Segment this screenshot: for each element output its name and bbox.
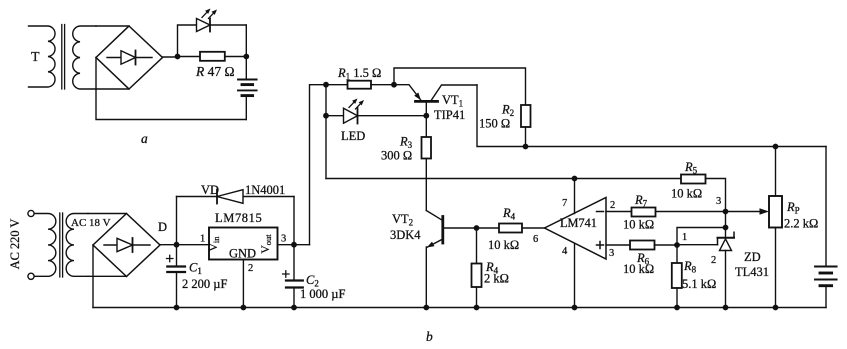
resistor R 47Ω (a) [178,52,247,61]
node dot pin7 [572,176,578,182]
wire node D up to VD [176,197,178,245]
wire pin7 up to supply rail [574,179,576,214]
node dot 3 (TL431 cathode node) [723,209,729,215]
node dot LED branch [323,113,329,119]
transistor VT2 3DK4 [426,211,476,308]
svg-text:2 200 µF: 2 200 µF [182,277,227,291]
wire LED right down to node [245,25,247,57]
wire secondary(b) top to bridge top [88,213,127,215]
svg-text:300 Ω: 300 Ω [381,149,412,163]
battery (a) [238,57,257,120]
transformer T primary winding [29,26,56,87]
transformer T core [62,25,65,90]
node dot R1 right [391,82,397,88]
wire bottom return (a) [96,58,246,120]
wire bridge(b) right vertex to node D [160,244,209,246]
AC input terminal (bottom) [28,273,34,279]
wire ref link to TL431 cathode line [677,228,726,246]
svg-text:7: 7 [562,198,567,209]
svg-text:LED: LED [341,129,365,143]
svg-text:2: 2 [711,255,716,266]
svg-text:4: 4 [562,246,568,257]
wire ref to zener bar hook [677,244,718,246]
wire down to LED(b) branch [325,85,327,116]
op-amp plus sign [597,242,604,249]
bridge rectifier (a) diamond [96,26,163,89]
node dot R2 bottom [523,144,529,150]
svg-text:R 47 Ω: R 47 Ω [195,64,235,79]
diode VD 1N4001 [177,190,295,204]
svg-text:AC 18 V: AC 18 V [71,217,111,229]
op-amp LM741 [545,198,607,260]
pin3 node dot [291,242,297,248]
svg-text:2: 2 [610,200,615,211]
bridge (b) internal diode [104,238,150,252]
battery (b) [815,147,837,308]
15V supply rail to R5 [326,178,681,180]
svg-text:1: 1 [200,234,205,245]
LED (a) arrows [202,9,217,19]
svg-text:VD: VD [201,183,219,197]
svg-text:LM7815: LM7815 [215,211,262,225]
resistor R6 10kΩ [606,241,677,250]
resistor R3 300Ω [422,116,432,211]
rail node dots [174,305,180,311]
svg-text:3DK4: 3DK4 [390,228,421,242]
wire secondary top to bridge top vertex [96,25,129,27]
resistor R5 10kΩ [681,175,726,212]
wire secondary bottom to bridge bottom vertex [96,88,129,90]
bridge rectifier (b) diamond [93,214,160,277]
svg-text:3: 3 [281,234,286,245]
svg-text:D: D [158,220,167,234]
resistor R2 150Ω [521,105,531,147]
wire LED branch down to op-amp supply rail [325,116,327,179]
transistor VT1 TIP41 [394,85,477,116]
svg-text:ZD: ZD [744,250,761,264]
svg-text:3: 3 [716,196,721,207]
svg-text:GND: GND [229,247,256,261]
svg-text:10 kΩ: 10 kΩ [488,238,519,252]
AC input terminal (top) [28,210,34,216]
svg-text:a: a [141,131,148,146]
resistor R8 5.1kΩ [672,245,682,308]
wire VD right down to pin3 node [293,197,295,245]
wire bridge(a) right vertex to node [163,56,178,58]
capacitor C1 [167,245,186,308]
node dot (R47 right) [243,54,249,60]
LED (a) [197,19,247,32]
svg-text:3: 3 [609,248,614,259]
wire pin4 down to rail [574,244,576,308]
node dot RP top [773,144,779,150]
resistor R7 10kΩ [606,208,726,217]
node dot VT2 base [474,225,480,231]
transformer (b) primary winding [35,214,56,277]
svg-text:6: 6 [533,234,538,245]
svg-text:5.1 kΩ: 5.1 kΩ [682,277,716,291]
svg-text:2 kΩ: 2 kΩ [484,272,509,286]
wire GND pin down to rail [242,260,244,308]
wiper arrow to RP [726,208,770,214]
svg-text:10 kΩ: 10 kΩ [671,187,702,201]
svg-text:1 000 µF: 1 000 µF [300,287,345,301]
regulator LM7815 box [209,228,278,260]
node D dot [174,242,180,248]
bottom rail (b) [93,307,826,309]
wire secondary(b) bottom to bridge bottom [88,275,127,277]
svg-text:1N4001: 1N4001 [245,183,285,197]
op-amp minus sign [597,211,604,213]
LED (b) [326,108,426,124]
bridge (a) internal diode [107,51,152,65]
svg-text:1: 1 [682,232,687,243]
svg-text:b: b [426,329,433,344]
shunt regulator ZD TL431 [718,212,735,308]
node dot R6/R8 junction [674,242,680,248]
svg-text:R1 1.5 Ω: R1 1.5 Ω [337,66,381,82]
svg-text:TIP41: TIP41 [434,108,465,122]
svg-text:10 kΩ: 10 kΩ [623,218,654,232]
svg-text:2: 2 [248,263,253,274]
node dot TL431 cathode tap [723,225,729,231]
transformer T secondary winding [73,26,96,89]
capacitor C2 [283,245,303,308]
svg-text:TL431: TL431 [735,265,769,279]
potentiometer RP 2.2kΩ [769,147,782,308]
node dot 15V corner [323,82,329,88]
node dot VT1 base [423,113,429,119]
svg-text:T: T [31,50,40,65]
svg-text:150 Ω: 150 Ω [479,117,510,131]
svg-text:AC 220 V: AC 220 V [8,219,22,270]
resistor R4 10kΩ [477,224,545,233]
svg-text:2.2 kΩ: 2.2 kΩ [784,217,818,231]
node dot (bridge a output +) [175,54,181,60]
LED (b) arrows [349,99,364,110]
svg-text:LM741: LM741 [560,216,597,230]
wire VT1 collector down to charge rail [477,85,826,147]
wire bridge(b) left vertex down to ground rail [92,245,94,308]
svg-text:10 kΩ: 10 kΩ [623,262,654,276]
resistor R1 1.5Ω [326,81,394,89]
resistor R9 2kΩ [472,228,482,308]
wire pin3 node up to 15V rail [310,85,327,245]
transformer (b) core [60,213,63,277]
wire R1 node up over to R2 top [394,68,526,105]
transformer (b) secondary winding [66,214,88,277]
wire node up and right to LED (a) [178,25,197,57]
wire pin3 to node [278,244,310,246]
